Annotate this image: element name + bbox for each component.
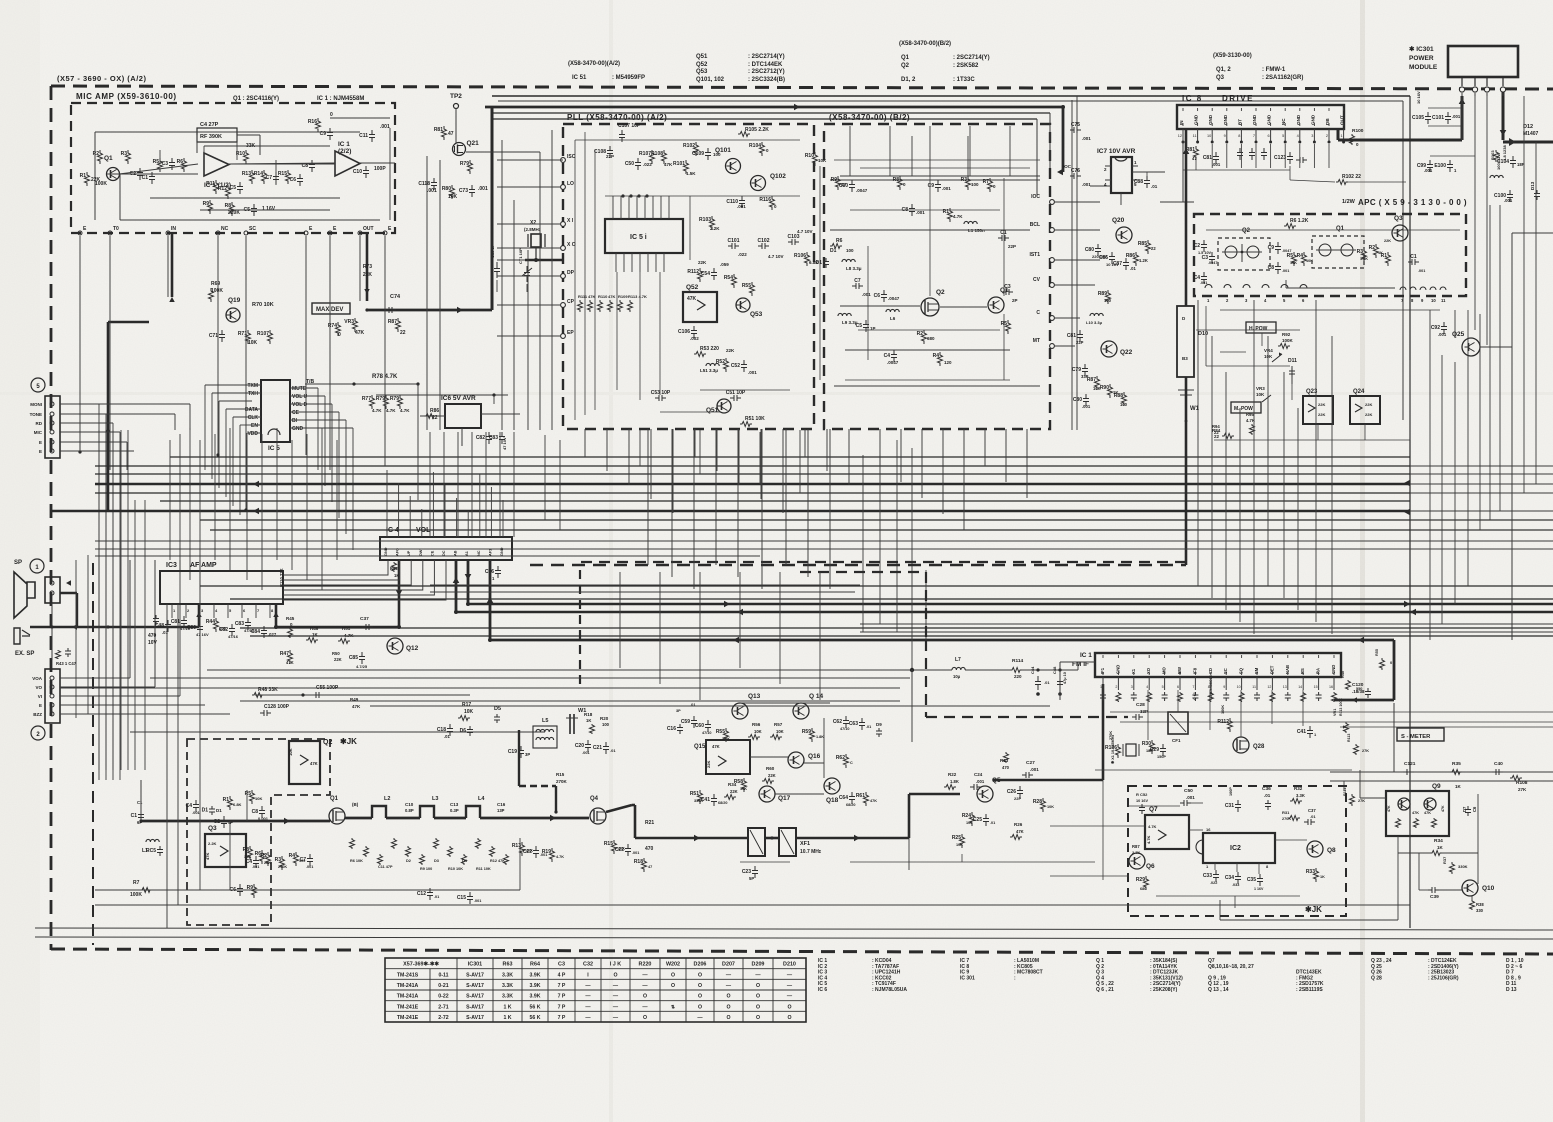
svg-text:(2.8MHɪ: (2.8MHɪ <box>524 227 541 232</box>
svg-text:D12: D12 <box>1523 124 1533 130</box>
svg-text:BCL: BCL <box>1030 222 1040 228</box>
R103 L8 <box>1490 145 1507 178</box>
IC5 right wires <box>305 382 508 500</box>
thick to Q5 <box>796 794 960 841</box>
svg-text:7 P: 7 P <box>558 994 566 1000</box>
svg-text:0.3P: 0.3P <box>450 808 459 813</box>
svg-text:R79: R79 <box>376 396 385 402</box>
svg-text:.001: .001 <box>474 899 481 903</box>
svg-text:IC 1: IC 1 <box>338 141 350 148</box>
svg-text:GND: GND <box>1115 665 1120 674</box>
net label PLL A/2 parts <box>568 61 645 81</box>
svg-text:C81: C81 <box>1203 155 1212 161</box>
FET Q1 RF <box>329 796 359 824</box>
svg-text:IOC: IOC <box>1063 164 1072 169</box>
svg-text:22P: 22P <box>1014 796 1021 801</box>
svg-text:47 16V: 47 16V <box>196 632 209 637</box>
svg-text:220K: 220K <box>228 210 240 216</box>
L7 R114 FM IF feed <box>207 657 1095 742</box>
svg-text:VDD: VDD <box>247 431 258 437</box>
APC FET pair Q1 <box>1316 226 1356 256</box>
svg-text:R111: R111 <box>578 294 588 299</box>
parts list Q51-Q101 <box>696 54 785 83</box>
transistor Q3 APC <box>1392 215 1408 241</box>
svg-text:.001: .001 <box>1418 269 1425 273</box>
svg-text:22: 22 <box>400 330 406 336</box>
thick FM IF long feed <box>488 637 1394 644</box>
main board outline <box>492 96 1410 928</box>
svg-text:47K: 47K <box>286 660 294 665</box>
svg-text:—: — <box>726 983 732 989</box>
long mid-left wires <box>60 678 910 701</box>
coupling caps <box>405 802 506 813</box>
svg-text:—: — <box>613 994 619 1000</box>
svg-text:11: 11 <box>1193 134 1197 138</box>
svg-text:Q51: Q51 <box>696 54 708 60</box>
svg-text:R107: R107 <box>257 331 269 337</box>
svg-text:CP: CP <box>567 299 575 305</box>
svg-text:TM-241A: TM-241A <box>397 994 419 1000</box>
svg-text:R3: R3 <box>1357 249 1364 255</box>
svg-text:13: 13 <box>1283 685 1287 689</box>
svg-text:VOL D: VOL D <box>292 402 308 408</box>
svg-text:C: C <box>1036 310 1040 316</box>
svg-text:1K: 1K <box>1455 784 1462 789</box>
svg-text:MIC: MIC <box>34 430 43 435</box>
right verticals APC down <box>1198 300 1332 634</box>
parts list X59-3130 <box>1213 53 1303 81</box>
svg-text:4 P: 4 P <box>558 972 566 978</box>
svg-text:C3: C3 <box>558 962 565 968</box>
IC4 pins <box>384 470 504 581</box>
svg-text:C108: C108 <box>594 149 606 155</box>
R15 label <box>556 772 568 784</box>
svg-text:22K: 22K <box>363 272 373 278</box>
svg-text:1/2W: 1/2W <box>1342 199 1356 205</box>
svg-text:D6: D6 <box>460 728 467 734</box>
svg-text:.001: .001 <box>1030 767 1039 772</box>
connector 2 pins <box>32 676 54 717</box>
svg-text:C107 10P: C107 10P <box>618 123 641 129</box>
IC5 fan wires <box>205 385 353 550</box>
MAX DEV label <box>312 303 350 314</box>
svg-text:NC: NC <box>221 226 229 232</box>
svg-text:—: — <box>726 972 732 978</box>
XF1 crystal filter <box>748 828 821 856</box>
svg-text:22K: 22K <box>1365 412 1372 417</box>
EX SP jack <box>14 628 34 657</box>
svg-text:O: O <box>613 972 617 978</box>
svg-text:R92: R92 <box>1282 332 1291 337</box>
svg-text:DRIVE: DRIVE <box>1222 94 1254 103</box>
svg-text:R15: R15 <box>556 772 565 777</box>
svg-text:4.7 10V: 4.7 10V <box>797 229 813 234</box>
svg-text:.001: .001 <box>1438 332 1447 337</box>
M power adj <box>1212 386 1271 435</box>
svg-text:47K: 47K <box>664 162 673 167</box>
svg-text:NAB: NAB <box>1285 665 1290 674</box>
svg-text:.001: .001 <box>737 204 746 209</box>
IC1 left stub <box>1060 662 1095 700</box>
svg-text:CT1 10P: CT1 10P <box>518 248 523 264</box>
Q24 digital transistor <box>1350 389 1380 424</box>
svg-text:Q4: Q4 <box>590 796 599 802</box>
svg-text:IC 6: IC 6 <box>818 987 827 993</box>
thick IC1 output loop <box>1334 640 1394 703</box>
svg-text:C121: C121 <box>1404 761 1416 767</box>
svg-text:R101: R101 <box>673 161 685 167</box>
svg-text:C50: C50 <box>1184 788 1193 794</box>
svg-text:R34: R34 <box>728 782 737 787</box>
svg-text:.01: .01 <box>990 821 995 825</box>
svg-text:MT: MT <box>1033 338 1040 344</box>
svg-text:Q2: Q2 <box>936 289 945 296</box>
svg-text:DET: DET <box>1269 665 1274 674</box>
svg-text:C51 10P: C51 10P <box>726 390 746 396</box>
svg-text:L2: L2 <box>384 796 390 802</box>
svg-text:XO: XO <box>1146 667 1151 674</box>
svg-text:C37: C37 <box>360 616 369 622</box>
svg-text:C64: C64 <box>839 795 848 801</box>
svg-text:—: — <box>787 994 793 1000</box>
verticals under IC6 <box>430 432 514 537</box>
svg-text:D1: D1 <box>202 808 209 814</box>
svg-text:R106: R106 <box>794 253 806 259</box>
mid verticals x640-830 <box>620 429 830 700</box>
svg-text:IC7 10V AVR: IC7 10V AVR <box>1097 148 1136 155</box>
left lower verticals <box>130 560 200 928</box>
svg-text:C9: C9 <box>1268 245 1275 251</box>
svg-text:Q53: Q53 <box>696 69 708 75</box>
svg-text:.01: .01 <box>1044 680 1050 685</box>
svg-text:C4 27P: C4 27P <box>200 122 219 128</box>
svg-text:13P: 13P <box>497 808 505 813</box>
svg-text:S-AV17: S-AV17 <box>466 983 484 989</box>
svg-text:C4: C4 <box>884 353 891 359</box>
svg-text:C85: C85 <box>349 655 358 661</box>
APC small parts <box>1194 239 1426 285</box>
svg-text:16: 16 <box>1206 827 1211 832</box>
L1 input <box>131 800 163 856</box>
svg-text:C101: C101 <box>728 238 740 244</box>
bus interconnect verticals mid <box>545 430 926 700</box>
svg-text:10μ: 10μ <box>953 674 961 679</box>
svg-text:—: — <box>585 1015 591 1021</box>
svg-text:Q1: Q1 <box>901 55 910 61</box>
pullup resistors <box>362 395 410 413</box>
svg-text:MODULE: MODULE <box>1409 64 1438 71</box>
dashed divider upper <box>581 561 1186 563</box>
svg-text:.001: .001 <box>748 370 757 375</box>
L3 link <box>420 796 466 818</box>
svg-text:O: O <box>698 994 702 1000</box>
R84 <box>1212 428 1234 439</box>
svg-text:E: E <box>39 703 42 708</box>
svg-text:14: 14 <box>1298 685 1302 689</box>
R108 <box>1510 776 1528 793</box>
svg-text:MUTE: MUTE <box>292 386 307 392</box>
svg-text:47/10: 47/10 <box>840 727 850 731</box>
svg-text:47 10V: 47 10V <box>502 437 507 450</box>
svg-text:D1: D1 <box>830 248 837 254</box>
svg-text:VR3: VR3 <box>1256 386 1265 391</box>
PLL output wires right <box>1055 202 1100 346</box>
svg-text:O: O <box>671 972 675 978</box>
svg-text:C8: C8 <box>252 809 259 815</box>
svg-text:R62: R62 <box>836 755 845 761</box>
svg-text:—: — <box>642 1004 648 1010</box>
svg-text:10K: 10K <box>1264 354 1273 359</box>
svg-text:.001: .001 <box>478 186 488 192</box>
svg-text:CLK: CLK <box>248 415 259 421</box>
svg-text:Q20: Q20 <box>1112 217 1125 224</box>
svg-text:: 2SA1162(GR): : 2SA1162(GR) <box>1262 75 1303 81</box>
svg-text:POWER: POWER <box>1409 55 1434 62</box>
svg-text:100K: 100K <box>1221 705 1225 714</box>
svg-text:470: 470 <box>1002 765 1010 770</box>
svg-text:L10 3.3μ: L10 3.3μ <box>1086 320 1103 325</box>
svg-text:R5: R5 <box>153 159 160 165</box>
PLL bottom comb verticals <box>585 429 1027 530</box>
svg-text:C11: C11 <box>359 133 368 139</box>
svg-text:.002: .002 <box>690 336 699 341</box>
svg-text:22P: 22P <box>1008 244 1016 249</box>
svg-text:R22: R22 <box>948 772 957 777</box>
svg-text:3.3K: 3.3K <box>1296 793 1305 798</box>
svg-text:C24: C24 <box>974 772 983 777</box>
svg-text:BW: BW <box>1177 667 1182 674</box>
svg-text:R53 220: R53 220 <box>700 346 719 352</box>
svg-text:D1: D1 <box>216 808 222 813</box>
svg-text:4.7K: 4.7K <box>400 408 410 413</box>
Q22 cluster <box>1067 290 1133 409</box>
R100 <box>1350 128 1364 147</box>
svg-text:Q21: Q21 <box>467 140 480 147</box>
svg-text:C82: C82 <box>219 627 228 633</box>
svg-text:O: O <box>726 994 730 1000</box>
M.POW label <box>1231 402 1261 413</box>
svg-text:Q18: Q18 <box>826 797 839 804</box>
svg-text:7 P: 7 P <box>558 1004 566 1010</box>
svg-text:R38: R38 <box>1476 902 1484 907</box>
svg-text:100K: 100K <box>1282 338 1294 343</box>
APC bottom pin row <box>1205 280 1446 303</box>
svg-text:Q28: Q28 <box>1253 744 1265 750</box>
svg-text:100: 100 <box>966 821 972 825</box>
svg-text:S-AV17: S-AV17 <box>466 1004 484 1010</box>
svg-text:C80: C80 <box>1085 247 1094 253</box>
svg-text:C27: C27 <box>1026 760 1035 766</box>
svg-text:C1: C1 <box>137 800 143 805</box>
svg-text:: 2SC2712(Y): : 2SC2712(Y) <box>748 69 785 75</box>
svg-text:C19: C19 <box>508 749 517 755</box>
svg-text:C87: C87 <box>1113 261 1122 267</box>
svg-text:R116: R116 <box>759 197 771 203</box>
svg-text:100P: 100P <box>1229 787 1233 796</box>
MIC AMP dashed box <box>71 103 395 233</box>
svg-text:C35: C35 <box>1247 877 1256 883</box>
svg-text:O: O <box>698 972 702 978</box>
svg-text:O: O <box>698 1004 702 1010</box>
svg-text:VO: VO <box>35 685 42 690</box>
svg-text:Q2: Q2 <box>901 63 910 69</box>
svg-text:Q24: Q24 <box>1353 389 1365 395</box>
svg-text:3.9K: 3.9K <box>530 994 541 1000</box>
svg-text:R18: R18 <box>584 712 593 717</box>
svg-text:C5: C5 <box>230 185 237 191</box>
svg-text:IC 5: IC 5 <box>268 445 280 452</box>
svg-text:470: 470 <box>645 846 654 852</box>
svg-text:100: 100 <box>971 182 979 187</box>
svg-text:IC 8: IC 8 <box>1182 94 1203 103</box>
svg-text:: 25K208(Y): : 25K208(Y) <box>1150 987 1178 993</box>
svg-text:C82: C82 <box>476 435 485 441</box>
svg-text:16: 16 <box>1329 685 1333 689</box>
svg-text:—: — <box>585 1004 591 1010</box>
svg-text:C73: C73 <box>459 188 468 194</box>
svg-text:L3: L3 <box>432 796 438 802</box>
svg-text:47K: 47K <box>712 744 720 749</box>
svg-text:R15: R15 <box>278 171 287 177</box>
svg-text:.01: .01 <box>866 725 871 729</box>
svg-text:R87: R87 <box>388 319 397 325</box>
svg-text:C7: C7 <box>854 278 861 284</box>
svg-text:Q8: Q8 <box>1327 847 1336 854</box>
svg-text:R80: R80 <box>442 186 451 192</box>
svg-text:C3: C3 <box>162 161 169 167</box>
IF chain parts <box>667 702 882 807</box>
svg-text:10K: 10K <box>1047 805 1054 809</box>
svg-text:270K: 270K <box>556 779 568 784</box>
svg-text:.001: .001 <box>1186 795 1195 800</box>
svg-text:3.9K: 3.9K <box>530 972 541 978</box>
svg-text:C52: C52 <box>731 363 740 369</box>
bottom parts list text <box>818 958 1524 993</box>
svg-text:(X58-3470-00) (B/2): (X58-3470-00) (B/2) <box>829 113 910 122</box>
svg-text:C83: C83 <box>235 621 244 627</box>
svg-text:Q101, 102: Q101, 102 <box>696 77 725 83</box>
svg-text:DP: DP <box>567 270 575 276</box>
svg-text:R6 10K: R6 10K <box>350 859 363 863</box>
svg-text:O: O <box>756 1015 760 1021</box>
svg-text:CE: CE <box>292 410 300 416</box>
svg-text:X I: X I <box>567 218 574 224</box>
svg-text:10: 10 <box>1431 298 1436 303</box>
Q3 digital transistor <box>205 825 246 867</box>
svg-text:3P: 3P <box>525 752 530 757</box>
svg-text:Q 14: Q 14 <box>809 693 823 700</box>
thick to XF1 <box>606 805 748 852</box>
svg-text:C8: C8 <box>1268 265 1275 271</box>
svg-text:2-72: 2-72 <box>438 1015 448 1021</box>
C61 discriminator <box>1193 675 1213 700</box>
svg-text:C81: C81 <box>171 619 180 625</box>
svg-text:C40: C40 <box>1494 761 1503 767</box>
svg-text:4: 4 <box>1297 134 1299 138</box>
svg-text:TM-241E: TM-241E <box>397 1004 419 1010</box>
svg-text:C128 100P: C128 100P <box>264 704 290 710</box>
svg-text:R56: R56 <box>752 722 761 727</box>
svg-text:TM-241E: TM-241E <box>397 1015 419 1021</box>
svg-text:R33: R33 <box>1306 869 1315 875</box>
svg-text:R C52: R C52 <box>1136 792 1148 797</box>
svg-text:R8: R8 <box>225 203 232 209</box>
svg-text:Q2: Q2 <box>323 739 332 746</box>
svg-text:AF AMP: AF AMP <box>190 562 217 569</box>
Q10 <box>1462 880 1495 896</box>
svg-text:IF1: IF1 <box>1100 667 1105 674</box>
svg-text:S-AV17: S-AV17 <box>466 972 484 978</box>
L5 transformer <box>533 718 557 748</box>
svg-text:Q13: Q13 <box>748 693 761 700</box>
svg-text:SC: SC <box>1223 668 1228 674</box>
svg-text:R100: R100 <box>1352 128 1364 134</box>
IC4 to IC3 nested L wires <box>283 560 446 600</box>
svg-text:R86: R86 <box>1126 253 1135 259</box>
svg-text:100: 100 <box>1120 402 1128 407</box>
svg-text:(X58-3470-00)(A/2): (X58-3470-00)(A/2) <box>568 61 620 67</box>
svg-text:C34: C34 <box>1225 875 1234 881</box>
svg-text:.0047: .0047 <box>856 188 868 193</box>
svg-text:C26: C26 <box>1007 789 1016 795</box>
svg-text:10K: 10K <box>740 787 747 791</box>
TP2 to PLL wires <box>456 108 563 430</box>
svg-text:R2: R2 <box>917 331 924 337</box>
svg-text:C20: C20 <box>575 743 584 749</box>
svg-text:A1: A1 <box>465 551 469 556</box>
C99 E100 <box>1417 156 1475 173</box>
svg-text:L7: L7 <box>955 657 961 663</box>
svg-text:O: O <box>787 1015 791 1021</box>
svg-text:R87: R87 <box>1132 844 1140 849</box>
svg-text:47K: 47K <box>205 853 210 860</box>
svg-text:D3: D3 <box>434 859 439 863</box>
svg-text:R111: R111 <box>1343 787 1347 796</box>
Q8 <box>1307 841 1336 857</box>
svg-text:0: 0 <box>330 112 333 118</box>
svg-text:—: — <box>613 1004 619 1010</box>
svg-text:2: 2 <box>1115 685 1117 689</box>
svg-text:10K: 10K <box>818 158 827 163</box>
VR1 cluster <box>1297 698 1369 755</box>
W1 ground stub <box>1178 377 1200 430</box>
svg-text:C83: C83 <box>489 435 498 441</box>
svg-text:Q9: Q9 <box>1432 783 1441 790</box>
svg-text:C88: C88 <box>1134 179 1143 185</box>
Q101 Q102 <box>715 147 786 191</box>
R112 <box>1217 705 1232 732</box>
svg-text:C31: C31 <box>1225 803 1234 809</box>
svg-text:10K: 10K <box>1290 261 1297 265</box>
svg-text:(X57 - 3690 - OX) (A/2): (X57 - 3690 - OX) (A/2) <box>57 74 146 83</box>
svg-text:R84: R84 <box>1212 428 1221 433</box>
svg-text:.001: .001 <box>632 851 639 855</box>
svg-text:.0047: .0047 <box>1208 261 1218 265</box>
svg-text:RF 390K: RF 390K <box>200 134 222 140</box>
svg-text:R2: R2 <box>1369 245 1376 251</box>
C23 <box>740 862 790 881</box>
svg-text:R110: R110 <box>598 294 608 299</box>
svg-text:C25: C25 <box>973 817 982 823</box>
IC51 box <box>605 219 683 253</box>
FET Q2 and Q1 of B/2 <box>921 287 1009 316</box>
svg-text:R77: R77 <box>362 396 371 402</box>
op-amp IC1 2/2 <box>335 141 360 176</box>
svg-text:R102: R102 <box>683 143 695 149</box>
IC5 pin labels <box>245 374 398 437</box>
svg-text:C60: C60 <box>695 723 704 729</box>
op-amp IC1 1/2 <box>204 153 231 189</box>
